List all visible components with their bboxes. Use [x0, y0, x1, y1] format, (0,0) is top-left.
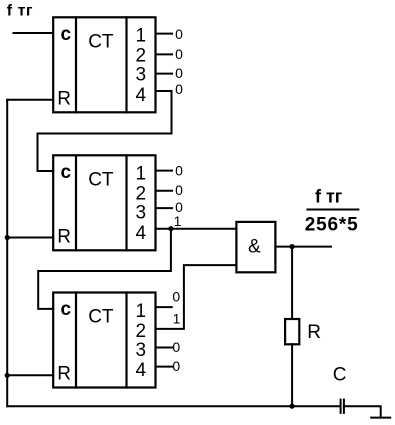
wire U3 output 4 stub: [156, 366, 173, 368]
svg-text:3: 3: [136, 340, 147, 361]
wire U1 output 2 stub: [156, 53, 173, 55]
label 0 on U1 output 4: [175, 81, 183, 97]
wire U3 output 2 to AND gate input 2: [156, 265, 237, 329]
wire U2 output 2 stub: [156, 190, 173, 192]
label 0 on U1 output 2: [175, 46, 183, 62]
svg-text:1: 1: [173, 310, 181, 326]
label 0 on U3 output 4: [172, 358, 180, 374]
counter U1 (CT, top): [53, 17, 155, 112]
node f_tg/256*5 output label: [305, 186, 359, 235]
wire AND output junction down to resistor R1: [291, 247, 293, 319]
label 1 on U2 output 4: [174, 213, 182, 229]
wire U3 output 3 stub: [156, 347, 173, 349]
svg-text:f тг: f тг: [7, 2, 33, 19]
wire resistor R1 bottom to ground rail: [291, 344, 293, 406]
svg-text:0: 0: [172, 358, 180, 374]
label 0 on U1 output 1: [175, 26, 183, 42]
wire U1 pin R to bus: [7, 99, 53, 101]
wire U1 output 1 stub: [156, 33, 173, 35]
wire U1 output 4 to U2 pin c: [38, 91, 172, 171]
svg-text:256*5: 256*5: [305, 215, 359, 236]
svg-text:0: 0: [172, 339, 180, 355]
svg-text:1: 1: [174, 213, 182, 229]
label R of resistor: [307, 322, 321, 343]
resistor R1: [285, 319, 299, 344]
wire U2 output 4 branch to U3 pin c: [38, 229, 171, 309]
svg-text:0: 0: [175, 182, 183, 198]
label 0 on U2 output 3: [175, 199, 183, 215]
svg-text:0: 0: [175, 81, 183, 97]
fraction bar of output label: [307, 209, 358, 211]
node f_tg input label: [7, 2, 33, 19]
svg-text:R: R: [57, 364, 71, 385]
wire U2 output 4 to AND gate input 1: [156, 228, 237, 230]
svg-text:0: 0: [172, 289, 180, 305]
wire reset bus vertical: [6, 100, 8, 407]
wire U3 output 1 stub: [156, 306, 172, 308]
svg-text:2: 2: [136, 184, 147, 205]
counter U2 (CT, middle): [53, 155, 155, 250]
junction on AND output: [290, 244, 295, 249]
label 1 on U3 output 2: [173, 310, 181, 326]
svg-text:&: &: [248, 237, 261, 258]
svg-text:0: 0: [175, 163, 183, 179]
svg-text:f тг: f тг: [315, 186, 343, 206]
svg-text:R: R: [57, 227, 71, 248]
ground symbol: [371, 417, 390, 419]
svg-text:1: 1: [136, 301, 147, 322]
capacitor C1: [340, 400, 342, 413]
wire ground rail bottom: [7, 405, 340, 407]
junction on bus at U2 R: [5, 235, 10, 240]
label 0 on U2 output 2: [175, 182, 183, 198]
svg-text:2: 2: [136, 46, 147, 67]
label C of capacitor: [333, 365, 347, 386]
wire f_tg input to counter DD1 pin c: [14, 32, 54, 34]
junction on bus at U3 R: [5, 373, 10, 378]
svg-text:C: C: [333, 365, 347, 386]
wire AND gate output: [275, 246, 331, 248]
svg-text:3: 3: [136, 65, 147, 86]
junction on U2 output 4: [168, 226, 173, 231]
junction on ground rail below resistor: [290, 404, 295, 409]
svg-text:c: c: [61, 24, 72, 45]
label 0 on U2 output 1: [175, 163, 183, 179]
svg-text:c: c: [61, 162, 72, 183]
wire U2 output 3 stub: [156, 207, 173, 209]
label 0 on U3 output 1: [172, 289, 180, 305]
svg-text:1: 1: [136, 164, 147, 185]
svg-text:2: 2: [136, 321, 147, 342]
svg-text:c: c: [61, 299, 72, 320]
label 0 on U1 output 3: [175, 65, 183, 81]
svg-text:CT: CT: [88, 32, 114, 53]
label 0 on U3 output 3: [172, 339, 180, 355]
svg-text:4: 4: [136, 360, 147, 381]
wire U1 output 3 stub: [156, 73, 173, 75]
svg-text:1: 1: [136, 26, 147, 47]
wire U2 pin R to bus: [7, 237, 53, 239]
svg-text:CT: CT: [88, 307, 114, 328]
svg-text:0: 0: [175, 65, 183, 81]
wire U2 output 1 stub: [156, 170, 173, 172]
svg-text:3: 3: [136, 203, 147, 224]
wire capacitor to ground: [344, 406, 381, 417]
svg-text:4: 4: [136, 85, 147, 106]
svg-text:0: 0: [175, 26, 183, 42]
counter U3 (CT, bottom): [53, 293, 155, 388]
svg-text:4: 4: [136, 223, 147, 244]
wire U3 pin R to bus: [7, 374, 53, 376]
svg-text:R: R: [307, 322, 321, 343]
svg-text:0: 0: [175, 46, 183, 62]
AND gate U4: [236, 222, 275, 272]
svg-text:R: R: [57, 89, 71, 110]
svg-text:CT: CT: [88, 170, 114, 191]
